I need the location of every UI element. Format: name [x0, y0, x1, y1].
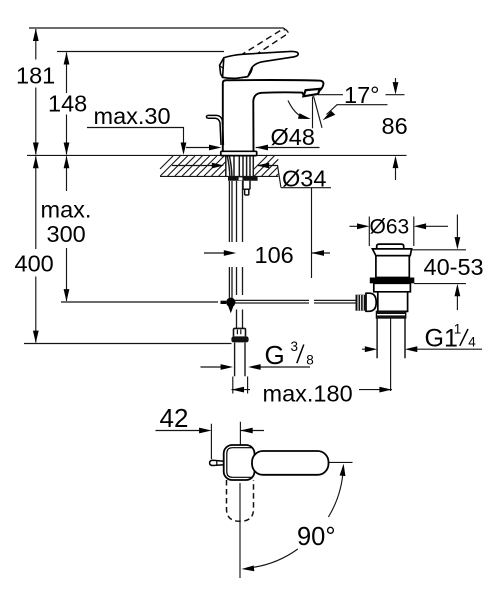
arrow 148 down at deck	[64, 143, 70, 155]
deck hatching left and right of faucet shank	[160, 156, 278, 176]
dim 42 extension lines	[211, 422, 240, 460]
drain tailpipe	[377, 318, 405, 358]
86 dimension shafts	[395, 78, 397, 180]
arrowheads	[33, 29, 460, 572]
knurled knob of pop-up connector	[356, 295, 367, 311]
dimension line 181 vertical	[35, 29, 37, 155]
hose thread extension lines	[233, 377, 248, 394]
ref line 181 top	[29, 28, 284, 30]
17deg label underline and leader	[327, 105, 388, 115]
rubber gasket (black)	[370, 278, 415, 284]
arrow G38 right pointing left	[248, 364, 260, 370]
arrow 106 right pointing left	[312, 250, 324, 256]
bottom view centerline	[239, 483, 241, 578]
bottom view: handle rotated 90 (dashed)	[227, 480, 254, 521]
pop-up rod vertical pair	[229, 181, 242, 328]
svg-text:max.30: max.30	[94, 103, 171, 129]
mounting washer under deck	[228, 177, 258, 195]
arrow O34 left pointing right	[212, 163, 224, 169]
arrow O63 right pointing left	[414, 223, 426, 229]
dim Ø48 label line	[256, 147, 320, 149]
drain flange (Ø63)	[372, 249, 411, 256]
svg-text:181: 181	[16, 62, 55, 88]
dim Ø34 left shaft	[172, 165, 215, 167]
ref line 148 top	[57, 51, 224, 53]
deck bottom line	[160, 175, 278, 177]
dim 42 line	[156, 430, 265, 432]
arrow 181 up	[33, 29, 39, 41]
svg-text:106: 106	[255, 242, 294, 268]
tailpiece coupling (two dark bands)	[376, 311, 405, 318]
dim Ø34 right shaft and leader	[257, 166, 331, 188]
Ø63 extension lines	[369, 217, 414, 247]
arrow 42 left pointing right	[199, 428, 211, 434]
dimension line 148 vertical	[66, 53, 68, 155]
svg-text:8: 8	[306, 352, 314, 367]
svg-text:G: G	[265, 340, 285, 370]
40-53 dimension shafts	[456, 215, 458, 311]
arrow max300 down	[64, 289, 70, 301]
arrow 400 up at deck	[33, 156, 39, 168]
arrow O63 left pointing right	[357, 223, 369, 229]
dim 106 left shaft	[204, 252, 227, 254]
dimension line 400 vertical	[35, 156, 37, 342]
stream angle arc arrow curve	[288, 101, 305, 119]
arrow 40-53 bottom up	[455, 284, 461, 296]
17deg slanted stream line	[314, 96, 323, 128]
nozzle vertical reference	[312, 97, 314, 129]
dimension line max300 vertical	[66, 156, 68, 301]
dim Ø48 left shaft	[186, 147, 212, 149]
svg-text:300: 300	[47, 221, 86, 247]
arrow max180 left pointing left	[232, 387, 244, 393]
400 ref line at hose end	[24, 343, 232, 345]
bottom view: stub inner tick	[216, 461, 218, 466]
svg-text:3: 3	[291, 339, 299, 354]
faucet body with spout	[223, 80, 324, 151]
svg-text:42: 42	[160, 403, 189, 433]
arrow 17deg leader	[323, 111, 336, 121]
G3/8 arrow shafts	[201, 366, 311, 368]
bottom view: handle grip	[252, 451, 329, 475]
svg-text:Ø63: Ø63	[370, 215, 410, 238]
svg-text:86: 86	[382, 113, 408, 139]
hose end fitting	[234, 328, 246, 336]
svg-text:max.180: max.180	[263, 380, 353, 406]
svg-text:40-53: 40-53	[424, 254, 484, 280]
86 top reference line segments	[318, 94, 405, 96]
max.180 dimension line	[232, 389, 392, 391]
40-53 ref line bottom	[414, 283, 466, 285]
arrow 148 up	[64, 52, 70, 64]
spout aerator nozzle	[304, 89, 320, 96]
arrow O34 right pointing left	[257, 163, 269, 169]
arrow O48 right pointing left	[256, 145, 268, 151]
threaded tube below nut	[235, 343, 245, 377]
arrow O48 left pointing right	[209, 145, 221, 151]
arrow 42 right pointing left	[240, 428, 252, 434]
mounting stud and nut	[243, 181, 250, 195]
drain body band below gasket	[374, 283, 411, 292]
arrow max30 down	[181, 143, 187, 155]
svg-text:4: 4	[468, 335, 476, 350]
svg-text:1: 1	[454, 322, 462, 337]
arrow 90deg arc end pointing left	[242, 566, 255, 572]
svg-text:max.: max.	[41, 197, 92, 223]
arrow 400 down	[33, 331, 39, 343]
G1 1/4 arrow shafts	[362, 348, 482, 350]
raised handle tip dash	[284, 29, 288, 33]
90deg arc extension line	[329, 461, 353, 463]
arrow G114 left pointing right	[365, 346, 377, 352]
max300 ref line at pop-up rod	[61, 301, 218, 303]
drain: plug cap	[366, 244, 412, 311]
dim 106 right shaft	[312, 252, 331, 254]
arrow 86 bottom up	[393, 156, 399, 168]
bottom view: pull-rod knob stub	[210, 460, 224, 465]
arrow 90deg arc top pointing up	[340, 464, 346, 477]
svg-text:148: 148	[48, 91, 87, 117]
arrow stream arc	[298, 113, 311, 119]
svg-text:400: 400	[15, 251, 54, 277]
arrow 181 down at deck	[33, 143, 39, 155]
90deg arc segments	[250, 468, 344, 568]
pop-up pull rod at faucet rear	[206, 115, 223, 145]
raised handle dashed outline (behind handle)	[231, 31, 286, 67]
ball joint of pop-up rod	[226, 298, 235, 307]
drain centerline	[390, 311, 392, 392]
arrow G114 right pointing left	[405, 346, 417, 352]
handle lever	[223, 51, 299, 78]
svg-text:17°: 17°	[344, 82, 380, 108]
base flange	[221, 151, 257, 155]
arrow max180 right pointing right	[379, 387, 391, 393]
svg-text:Ø34: Ø34	[282, 166, 326, 192]
Ø63 arrow shafts	[350, 225, 449, 227]
svg-text:Ø48: Ø48	[271, 124, 315, 150]
bottom view: pivot block inner line	[227, 448, 253, 478]
drain neck	[376, 256, 409, 278]
rod connector housing	[366, 293, 376, 311]
G3/8 nut (dark)	[231, 336, 248, 342]
deck top surface line	[27, 154, 407, 156]
max.30 leader	[87, 128, 184, 151]
arrow max300 up at deck	[64, 156, 70, 168]
40-53 ref line top	[412, 249, 467, 251]
horizontal pop-up rod to drain	[235, 300, 356, 303]
svg-text:90°: 90°	[297, 523, 336, 551]
Ø34 extension vertical / spout axis below deck	[311, 188, 313, 278]
supply hose pair	[237, 181, 243, 328]
arrow G38 left pointing right	[221, 364, 233, 370]
handle cap (wedge)	[220, 58, 253, 79]
bottom view: handle pivot block	[224, 445, 255, 480]
arrow 40-53 top down	[455, 237, 461, 249]
drain mid body	[378, 292, 408, 312]
arrow 86 top down	[393, 82, 399, 94]
faucet shank through deck: hole edges and tubes	[226, 156, 254, 176]
arrow 106 left pointing right	[224, 250, 236, 256]
handle cap facet lines	[220, 58, 240, 79]
